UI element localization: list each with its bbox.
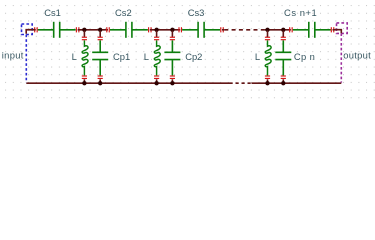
node J7 ticks <box>331 27 333 32</box>
node dot top Cp n <box>281 28 285 32</box>
wire to Cs n+1 <box>264 29 291 31</box>
node dot bottom L2 <box>154 81 158 85</box>
node dot top Cp2 <box>170 28 174 32</box>
wire Cs n+1 to output port <box>333 29 338 31</box>
input port dashed box <box>22 24 33 35</box>
input port inner pin wire <box>26 30 35 34</box>
branch stubs/ticks L3 <box>265 31 270 84</box>
node dot bottom L3 <box>265 81 269 85</box>
node J5 ticks <box>221 27 223 32</box>
capacitor Cp n <box>275 40 291 75</box>
node dot top L3 <box>265 28 269 32</box>
node J2 ticks <box>107 27 109 32</box>
capacitor Cs3 <box>182 22 220 38</box>
node J1 ticks <box>76 27 78 32</box>
inductor L (section n) <box>265 40 271 75</box>
svg-text:Cs n+1: Cs n+1 <box>284 7 317 18</box>
output port dashed lead down to bottom rail <box>340 33 342 82</box>
svg-text:output: output <box>343 49 371 60</box>
wire Cs1 to Cs2 <box>78 29 108 31</box>
capacitor Cp2 <box>164 40 180 75</box>
inductor L (section 2) <box>154 40 160 75</box>
node dot bottom Cp n <box>281 81 285 85</box>
svg-text:Cp2: Cp2 <box>185 51 202 62</box>
node dot top L2 <box>154 28 158 32</box>
svg-text:L: L <box>255 51 260 62</box>
svg-text:Cs2: Cs2 <box>115 7 132 18</box>
wire Cs3 to dashed continuation <box>222 29 224 31</box>
bottom rail dashed continuation <box>230 82 252 84</box>
capacitor Cs n+1 <box>293 22 331 38</box>
input port dashed lead down to bottom rail <box>25 35 27 83</box>
svg-text:Cp1: Cp1 <box>113 51 130 62</box>
node J4 ticks <box>179 27 181 32</box>
wire port to Cs1 <box>26 29 36 31</box>
capacitor Cp1 <box>92 40 108 75</box>
node dot bottom L1 <box>82 81 86 85</box>
wire Cs2 to Cs3 <box>150 29 180 31</box>
node dot bottom Cp2 <box>170 81 174 85</box>
output port inner pin wire <box>335 30 342 34</box>
branch stubs/ticks L2 <box>154 31 159 84</box>
svg-text:Cp n: Cp n <box>294 51 315 62</box>
node dot top Cp1 <box>98 28 102 32</box>
node dot bottom Cp1 <box>98 81 102 85</box>
output port dashed box <box>337 23 348 34</box>
branch stubs/ticks Cp1 <box>98 31 103 84</box>
capacitor Cs1 <box>38 22 76 38</box>
node J0 ticks <box>35 27 37 32</box>
node J6 ticks <box>290 27 292 32</box>
node J3 ticks <box>149 27 151 32</box>
branch stubs/ticks Cp n <box>281 31 286 84</box>
svg-text:input: input <box>2 49 24 60</box>
inductor L (section 1) <box>82 40 88 75</box>
svg-text:Cs3: Cs3 <box>188 7 205 18</box>
bottom rail wire right solid <box>252 82 342 84</box>
branch stubs/ticks Cp2 <box>170 31 175 84</box>
grid dots <box>0 0 375 100</box>
node dot top L1 <box>82 28 86 32</box>
capacitor Cs2 <box>110 22 148 38</box>
branch stubs/ticks L1 <box>82 31 87 84</box>
bottom rail wire left solid <box>26 82 229 84</box>
svg-text:L: L <box>144 51 149 62</box>
dashed continuation wire (omitted sections) <box>224 29 264 31</box>
svg-text:Cs1: Cs1 <box>44 7 61 18</box>
svg-text:L: L <box>72 51 77 62</box>
